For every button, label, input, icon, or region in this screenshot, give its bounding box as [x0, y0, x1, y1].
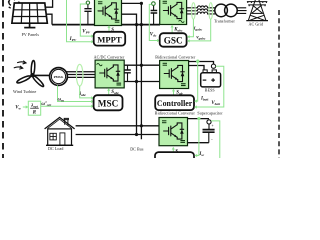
controller partial bottom	[155, 152, 194, 162]
svg-text:Ibatt: Ibatt	[200, 97, 209, 102]
converter U2 GSC dc/ac	[160, 0, 187, 25]
wire PV positive stub up (cropped)	[46, 0, 53, 7]
svg-text:IPV: IPV	[69, 37, 77, 42]
svg-text:Vbatt: Vbatt	[211, 101, 221, 106]
svg-text:Isc: Isc	[198, 152, 204, 157]
converter U1 PV dc/dc	[95, 0, 122, 26]
svg-text:MSC: MSC	[98, 99, 118, 109]
frame dashed border right	[278, 10, 280, 158]
svg-text:AC/DC Converter: AC/DC Converter	[94, 54, 125, 59]
svg-text:Wind Turbine: Wind Turbine	[13, 89, 37, 94]
sensor node V_dc	[152, 2, 156, 6]
wire U1 out bottom to rail A	[122, 14, 137, 24]
svg-text:DC Bus: DC Bus	[130, 146, 144, 151]
node rail A house wire	[135, 133, 138, 136]
signal wire I_sc down	[197, 120, 199, 155]
sun	[8, 0, 20, 8]
wind gust arrows	[14, 61, 26, 69]
capacitor C3 wind dc-link	[124, 65, 131, 81]
wire 3-phase transformer to grid	[237, 8, 247, 14]
svg-text:PV Panels: PV Panels	[22, 32, 40, 37]
wire 3-phase PMSG to U3	[66, 72, 95, 78]
signal wire I_PV to MPPT	[67, 0, 95, 43]
sensor ring V_batt	[211, 64, 215, 68]
svg-text:Bidirectional Converter: Bidirectional Converter	[155, 55, 196, 60]
node rail B bottom wire	[140, 23, 143, 26]
svg-text:-: -	[211, 136, 213, 141]
controller main	[155, 95, 194, 110]
wire dc bus rail B	[140, 3, 142, 139]
wire house to bus bottom	[76, 134, 159, 136]
signal wire i_gabc to GSC	[187, 19, 194, 38]
svg-text:Supercapacitor: Supercapacitor	[197, 111, 223, 116]
svg-text:MPPT: MPPT	[97, 34, 122, 44]
generator PMSG	[50, 68, 68, 86]
wire U5 to supercap bottom	[188, 142, 209, 144]
controller MPPT	[94, 32, 126, 46]
sensor loop v_gabc	[209, 3, 213, 19]
svg-text:AC Grid: AC Grid	[249, 21, 264, 26]
node rail B house wire	[140, 124, 143, 127]
transformer T1	[215, 4, 237, 17]
svg-text:GSC: GSC	[164, 36, 183, 46]
sensor node V_PV	[86, 1, 89, 4]
capacitor supercapacitor	[203, 124, 215, 143]
gate arrow S_ab controller to U4	[172, 89, 175, 95]
wire house to bus top	[76, 125, 159, 127]
svg-text:VPV: VPV	[82, 30, 90, 35]
svg-text:ωm: ωm	[58, 98, 65, 103]
wire bottom dc rail	[52, 24, 160, 26]
capacitor C1 dc-link PV	[84, 4, 91, 24]
wire PV negative to bottom rail	[46, 14, 52, 24]
gate arrow S_abc MSC to U3	[107, 88, 110, 95]
controller MSC	[94, 95, 123, 110]
converter U3 wind ac/dc	[95, 60, 124, 88]
sensor node I_batt	[196, 60, 199, 63]
svg-text:BESS: BESS	[205, 88, 215, 93]
signal wire omega_m to MSC	[58, 85, 94, 103]
wire dc bus rail A	[136, 25, 138, 135]
svg-text:+: +	[212, 124, 214, 128]
signal wire v_gabc to GSC	[187, 19, 211, 42]
wire U1 out top	[122, 2, 142, 4]
house DC load	[45, 117, 75, 145]
signal arrow V_w into lambda block	[23, 105, 29, 108]
svg-text:DC Load: DC Load	[48, 146, 63, 151]
svg-text:Vw: Vw	[15, 106, 21, 111]
svg-text:Bidirectional Converter: Bidirectional Converter	[155, 110, 196, 115]
node rail A mid	[135, 80, 138, 83]
svg-text:Transformer: Transformer	[214, 18, 236, 23]
node rail B top	[140, 2, 143, 5]
wire U5 to supercap top	[188, 118, 210, 120]
gate arrow K_abc GSC box to U2	[171, 25, 174, 33]
wire U4 to battery minus terminal	[189, 66, 204, 70]
signal wire V_batt to controller	[194, 66, 224, 108]
node rail A top	[135, 23, 138, 26]
wire U3 out bottom	[124, 81, 159, 83]
sensor loop i_abc	[76, 64, 83, 86]
converter U4 battery bidirectional	[160, 61, 189, 89]
block lambda_opt/R	[28, 101, 40, 115]
AC grid tower	[246, 0, 268, 21]
converter U5 supercap bidirectional	[159, 118, 188, 146]
sensor loop i_gabc	[192, 3, 196, 19]
svg-text:PMSG: PMSG	[54, 75, 64, 79]
signal wire V_PV to MPPT	[80, 4, 94, 38]
wind turbine W1	[16, 60, 44, 87]
signal wire V_sc down	[211, 121, 220, 158]
wire 3-phase GSC to transformer with line reactors	[187, 6, 216, 14]
battery BESS	[201, 70, 221, 87]
svg-text:igabc: igabc	[194, 27, 203, 32]
controller GSC	[160, 33, 187, 47]
PV panel	[12, 3, 47, 28]
signal wire I_batt to controller	[194, 62, 198, 102]
signal wire V_dc to GSC	[149, 4, 160, 42]
frame dashed border left	[2, 0, 4, 158]
gate arrow S_ab to U5	[172, 147, 175, 152]
shaft	[34, 74, 50, 76]
svg-text:Controller: Controller	[157, 99, 193, 108]
sensor node I_sc	[197, 117, 200, 120]
svg-text:Kabc: Kabc	[173, 28, 183, 33]
svg-text:Vdc: Vdc	[150, 32, 157, 37]
wire U3 out top	[124, 64, 159, 66]
signal wire i_abc to MSC	[80, 86, 94, 100]
gate arrow S MPPT to U1	[107, 25, 110, 31]
capacitor C2 dc-link GSC	[151, 5, 158, 24]
node rail B mid	[140, 64, 143, 67]
svg-text:iabc: iabc	[80, 92, 87, 97]
signal wire omega_opt to MSC	[41, 105, 94, 108]
sensor ring V_sc	[207, 120, 211, 124]
wire U4 to battery plus terminal	[189, 62, 214, 65]
svg-text:vgabc: vgabc	[196, 36, 205, 41]
signal arrow I_sc into bottom controller	[194, 154, 197, 157]
